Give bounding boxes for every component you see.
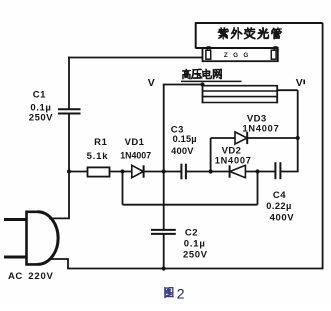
label C4 [266,190,294,223]
wire jog down [122,172,124,205]
wire right border [322,23,324,269]
svg-text:1N4007: 1N4007 [243,123,280,133]
wire center vertical mid [163,172,165,230]
svg-text:400V: 400V [171,146,194,156]
wire main row segment 3 [280,171,298,173]
grid wire 3 [203,96,278,98]
wire main row segment 1 [69,171,181,173]
svg-text:5.1k: 5.1k [87,151,109,162]
svg-text:AC: AC [8,271,23,282]
svg-text:250V: 250V [183,249,208,260]
label R1 [87,137,109,162]
wire to grid box [163,84,203,86]
node VD3 riser junction [209,169,213,173]
capacitor C3 [181,164,186,180]
svg-text:400V: 400V [270,212,295,223]
svg-text:0.15µ: 0.15µ [173,134,197,144]
grid box left edge [202,84,204,103]
capacitor C1 [58,109,81,113]
label V+ right [296,77,305,89]
wire center vertical top corner [163,85,165,172]
tube electrode right [271,47,277,59]
wire VD3 row [211,137,298,139]
grid wire 1 [203,85,278,87]
wire grid to V+ rail [277,89,298,91]
svg-text:C1: C1 [33,89,46,100]
svg-text:V: V [148,77,155,89]
wire plug bottom exit [50,258,68,260]
svg-text:1N4007: 1N4007 [120,151,151,161]
wire plug top to left vertical [49,217,70,219]
svg-text:C4: C4 [273,190,286,201]
AC plug prong bottom [4,256,27,259]
box UV lamp label frame [196,22,323,48]
diode VD1 [132,165,144,177]
wire jog up [257,172,259,205]
label C3 [171,124,197,156]
svg-text:0.1µ: 0.1µ [184,239,206,250]
label C1 [29,89,53,123]
svg-text:1N4007: 1N4007 [215,155,252,165]
svg-text:220V: 220V [28,271,53,282]
wire bottom drop [67,258,69,268]
label tube model [224,52,250,59]
svg-text:250V: 250V [29,113,53,124]
capacitor C2 [151,230,176,234]
node VD3 to V+ rail [296,136,300,140]
label VD3 part [243,123,280,133]
UV fluorescent tube [203,48,278,61]
label VD1 [120,137,151,160]
node bottom rail junction [162,266,166,270]
wire bottom rail [67,268,322,270]
svg-text:Z G G: Z G G [224,52,250,59]
wire left vertical lower [68,114,70,219]
wire jog across [123,204,258,206]
label V left [148,77,155,89]
svg-text:C2: C2 [185,227,198,238]
wire V+ vertical [297,90,299,171]
label C2 [183,227,208,260]
svg-text:0.22µ: 0.22µ [266,201,291,211]
grid wire 4 [203,102,278,104]
wire center vertical bottom [163,234,165,269]
node grid entry [200,82,204,86]
AC plug prong top [4,218,27,221]
wire VD3 riser [210,138,212,172]
capacitor C4 [275,162,280,179]
wire main row segment 2 [186,171,276,173]
node main-center junction [162,169,166,173]
resistor R1 [88,167,110,176]
diode VD2 [230,165,246,177]
diode VD3 [235,132,247,144]
label VD3 [247,113,267,124]
svg-text:V: V [296,77,303,89]
node VD2 jog junction [255,169,259,173]
grid wire 2 [203,90,278,92]
AC plug body [27,212,59,265]
svg-text:VD1: VD1 [125,137,145,148]
tube electrode left [206,47,211,59]
wire left vertical upper [68,57,70,109]
svg-text:R1: R1 [94,137,107,148]
label VD2 [215,145,252,165]
label figure caption [164,286,185,302]
svg-text:2: 2 [177,286,185,302]
label AC 220V [8,271,54,282]
label UV lamp title [218,27,282,39]
node R1-VD1 junction [120,169,124,173]
wire top (lamp feed) [68,57,203,59]
grid box right edge [276,85,278,103]
underline grid label [181,80,242,82]
label high-voltage grid [182,69,222,80]
node junction left-main [67,169,71,173]
